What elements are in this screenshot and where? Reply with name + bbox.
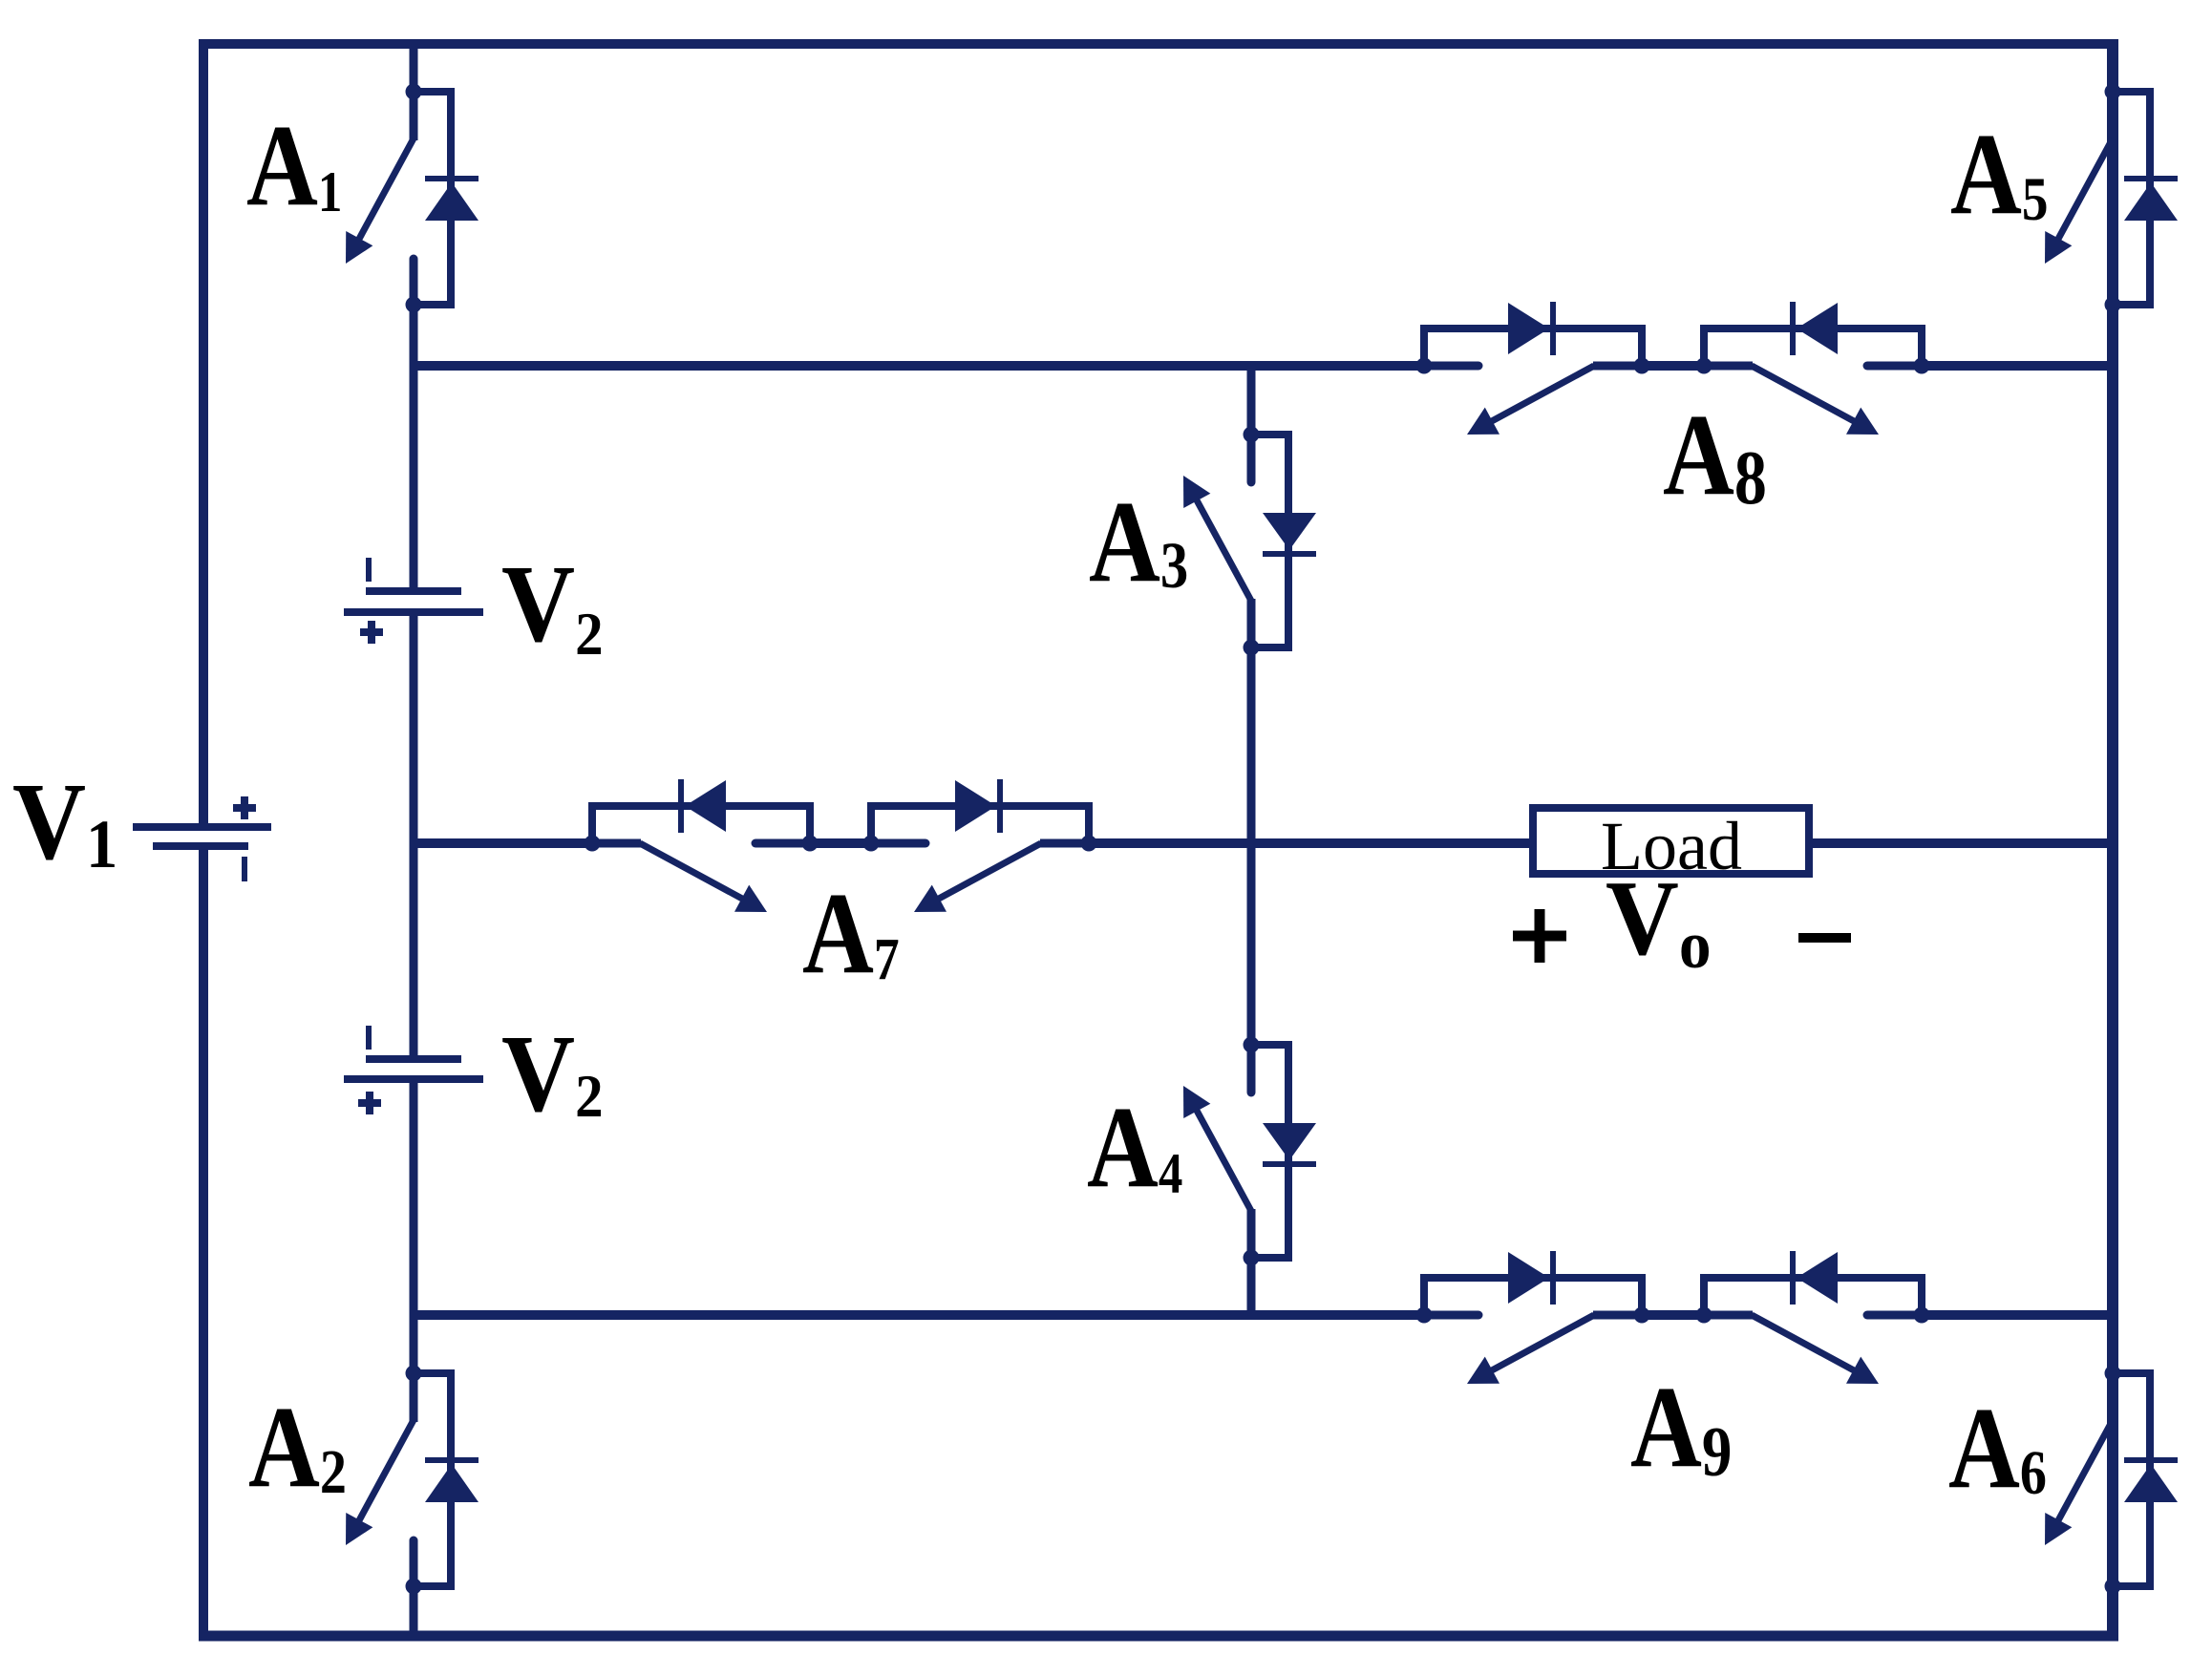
svg-text:Load: Load xyxy=(1601,808,1742,884)
